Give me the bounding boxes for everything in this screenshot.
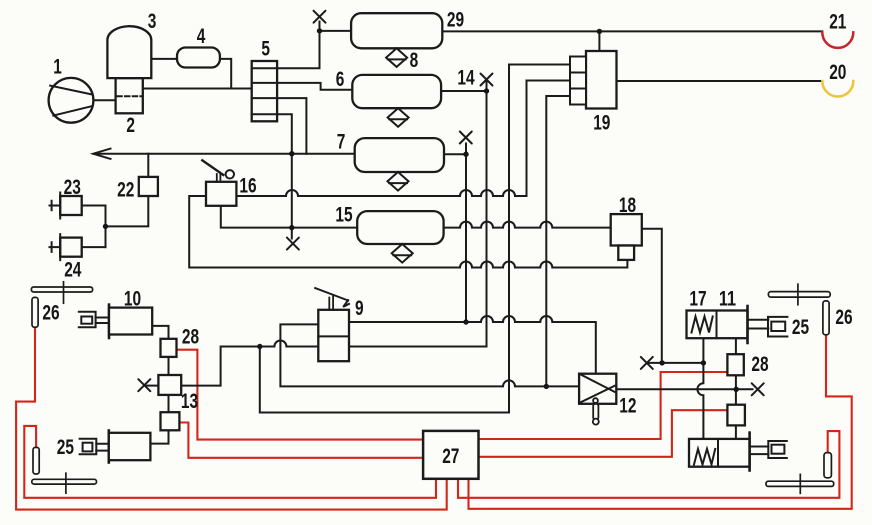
test point X at node 14 [481, 74, 493, 86]
wire: modulator 28 lower left to rear-left chamber [150, 430, 168, 443]
wire: trailer valve 19 to coupling head 20 (control line) [617, 80, 823, 82]
air reservoir 7 [355, 138, 444, 172]
svg-text:2: 2 [126, 114, 135, 137]
wire: red control lead, left modulator 28 (lower) to ECU 27 [179, 423, 423, 458]
junction node on unloading line [289, 151, 294, 156]
wire: test X stub into valve 13 [145, 385, 158, 387]
test point X below reservoir 15 node [287, 238, 299, 250]
trailer control valve 19 [570, 51, 617, 109]
wire: push rod of chamber 10 [96, 318, 109, 324]
wire: spring chamber 17 port down with hop over valve 12 line [697, 338, 703, 439]
spring brake chamber (rear right) [689, 433, 750, 471]
svg-text:12: 12 [619, 395, 636, 418]
svg-text:29: 29 [447, 9, 464, 32]
svg-text:28: 28 [751, 353, 768, 376]
valve 22 [139, 177, 158, 196]
junction node on valve 9 to valve 12 line [463, 319, 468, 324]
wire: valve 5 port I to reservoir 29 (with test point stub) [277, 31, 351, 68]
brake valve 9 (two-section, foot operated) [315, 288, 349, 361]
wire: stub test point X at node 14 [486, 81, 488, 92]
coupling head 21 (red) [822, 32, 853, 48]
junction node at reservoir 29 feed [317, 28, 322, 33]
svg-text:26: 26 [835, 306, 852, 329]
ECU 27 [423, 431, 478, 479]
wire: reservoir 7 to test node [444, 153, 466, 155]
svg-text:19: 19 [593, 111, 610, 134]
wheel 26 (front left): axle bar, mark and tyre [31, 282, 92, 327]
wheel (rear right): tyre, axle bar and mark [766, 453, 834, 494]
relay valve 18 [611, 214, 642, 260]
valve 13 [158, 375, 181, 395]
wire: red control lead, right modulator 28 (lower) to ECU 27 [479, 410, 728, 457]
wheel (rear left): tyre, axle bar and mark [32, 447, 97, 493]
wire: red sensor lead, rear-left wheel to ECU 27 (inner loop) [24, 426, 436, 498]
ABS modulator 28 (upper right) [727, 354, 743, 375]
svg-text:15: 15 [335, 203, 352, 226]
wire: push rod of front-right spring chamber [748, 320, 769, 329]
wire: switch 24 to junction [82, 246, 106, 248]
four-circuit protection valve 5 [252, 61, 277, 121]
svg-text:14: 14 [457, 67, 474, 90]
wire: red control lead, left modulator 28 (upper) to ECU 27 [177, 350, 424, 440]
junction node at reservoir 7 output [463, 152, 468, 157]
wire: red control lead, right modulator 28 (upper) to ECU 27 [479, 372, 728, 439]
svg-text:25: 25 [57, 436, 74, 459]
drain valve under reservoir 7 [388, 172, 409, 191]
drain valve under reservoir 15 [392, 244, 413, 263]
slack adjuster at rear right chamber [768, 441, 787, 458]
wire: stub test point X above reservoir 7 node [465, 144, 467, 155]
svg-text:21: 21 [829, 11, 846, 34]
wire: switch 23 to junction [82, 205, 106, 207]
slack adjuster at chamber 10 [79, 312, 96, 328]
wire: stub from supply line down into trailer valve 19 [598, 31, 600, 51]
wire: hand valve 12 output to rear X test point [616, 388, 752, 390]
svg-text:23: 23 [64, 176, 81, 199]
wire: valve 13 to modulator 28 (lower left) [168, 395, 170, 412]
wire: dryer 3 to regenerator 4 [151, 58, 177, 60]
wire: unloader 2 to four-circuit protection valve 5 [143, 88, 252, 90]
wire: valve 5 port III down to unloading line [277, 98, 306, 154]
air dryer 3 [107, 26, 151, 78]
slack adjuster at rear left chamber [80, 439, 97, 454]
wire: spring-brake line with test X to chamber ports [647, 362, 703, 364]
svg-text:24: 24 [64, 259, 81, 282]
drain valve 8 under reservoir 29 [386, 48, 407, 67]
drain valve under reservoir 6 [388, 108, 409, 127]
wire: modulator 28 to valve 13 [168, 357, 170, 375]
wire: junction vertical between switch 23 and switch 24 [105, 206, 107, 248]
svg-text:18: 18 [619, 194, 636, 217]
svg-text:10: 10 [124, 288, 141, 311]
wire: push rod of rear-right spring chamber [750, 447, 769, 455]
junction node 14 [484, 88, 489, 93]
compressor 1 [49, 78, 94, 123]
wire: reservoir 15 right to relay valve 18, with hops [444, 222, 611, 228]
wire: valve 19 port 3 left and down to valve 12 feed [546, 96, 570, 386]
svg-text:5: 5 [261, 38, 270, 61]
svg-text:8: 8 [410, 49, 419, 72]
junction node on valve 12 feed line [544, 384, 549, 389]
wire: valve 19 port 1 left, down and across to brake-valve node [260, 65, 570, 413]
wire: red sensor lead, rear-right wheel to ECU 27 (inner loop) [458, 431, 839, 498]
svg-text:20: 20 [829, 61, 846, 84]
svg-text:9: 9 [355, 297, 364, 320]
wire: push rod of rear-left chamber [96, 444, 109, 451]
ABS modulator 28 (lower right) [727, 405, 745, 426]
wire: valve 5 port IV down through junctions to test point [277, 114, 292, 238]
wheel 26 (front right): axle bar, mark and tyre [768, 284, 830, 335]
pressure switch 23 [50, 193, 82, 219]
air reservoir 29 [351, 13, 442, 48]
wire: hand valve 16 to valve 19 port 2 with crossing hops [236, 81, 570, 197]
coupling head 20 (yellow) [822, 81, 853, 97]
junction node at brake valve 9 lower feed [257, 344, 262, 349]
wire: reservoir 29 to coupling head 21 (trailer supply line) [442, 30, 822, 32]
wire: node 14 down to brake valve 9 lower section [349, 91, 487, 347]
wire: hand valve 16 left port to relay valve 18 control port, with hops [189, 196, 627, 268]
wire: brake valve 9 upper section to hand valve 12 top, with hops [349, 316, 596, 374]
spring brake chamber 17/11 (front right) [687, 306, 748, 343]
wire: stub to test point X above node [319, 22, 321, 31]
arrow head of unloading line [93, 149, 110, 159]
brake chamber (rear left) [109, 431, 151, 463]
svg-text:25: 25 [792, 316, 809, 339]
junction node spring-brake line to chamber 17 port [701, 360, 706, 365]
ABS modulator 28 (lower left) [161, 412, 180, 430]
pressure switch 24 [50, 234, 82, 260]
svg-text:13: 13 [181, 390, 198, 413]
junction node on reservoir 15 line [289, 225, 294, 230]
slack adjuster at chamber 11 [768, 317, 787, 337]
regeneration reservoir 4 [177, 48, 220, 68]
svg-text:22: 22 [117, 178, 134, 201]
air reservoir 15 [357, 211, 443, 244]
junction node relay 18 output on spring-brake line [659, 360, 664, 365]
unloader 2 [116, 78, 143, 113]
air reservoir 6 [352, 75, 441, 108]
hand (parking) valve 12 [579, 374, 616, 425]
svg-text:28: 28 [182, 326, 199, 349]
svg-text:16: 16 [239, 174, 256, 197]
wire: hand valve 16 bottom port to reservoir 15 [221, 206, 357, 228]
wire: valve 13 to brake valve 9 lower-left with hop [181, 341, 318, 386]
wire: modulator 28 lower right to rear chamber [735, 425, 737, 439]
wire: relay valve 18 output right and down [642, 229, 662, 363]
junction node on trailer supply line above valve 19 [597, 29, 602, 34]
wire: red sensor lead, front-left wheel to ECU 27 (outer loop) [16, 327, 447, 509]
svg-text:1: 1 [53, 56, 62, 79]
wire: unloading line with arrow to atmosphere [95, 153, 355, 155]
test point X at valve 13 [138, 379, 150, 391]
wire: stub from unloading line down to valve 22 [147, 154, 149, 177]
svg-text:3: 3 [148, 10, 157, 33]
test point X above reservoir 29 node [314, 11, 326, 23]
svg-text:27: 27 [442, 445, 459, 468]
wire: chamber 10 to modulator 28 (upper left) [152, 326, 168, 339]
wire: valve 5 port II to reservoir 6 [277, 83, 352, 90]
test point X at valve 12 output end [752, 383, 764, 395]
svg-text:6: 6 [336, 68, 345, 91]
wire: chamber 11 port to modulator 28 (upper right) [735, 338, 737, 354]
wire: modulator 28 upper right to lower right through valve 12 line [735, 375, 737, 404]
wire: red sensor lead, front-right wheel to ECU 27 (outer loop) [469, 335, 852, 509]
junction node between switches 23 and 24 [103, 224, 108, 229]
svg-text:4: 4 [197, 25, 206, 48]
brake chamber 10 [109, 305, 152, 338]
test point X above reservoir 7 node [460, 132, 472, 144]
svg-text:17: 17 [689, 288, 706, 311]
svg-text:11: 11 [719, 288, 736, 311]
wire: compressor 1 to unloader 2 [93, 99, 115, 101]
wire: reservoir 7 node down to brake valve 9 upper circuit [465, 154, 467, 322]
ABS modulator 28 (upper left) [161, 339, 177, 357]
wire: reservoir 6 to node 14 [441, 90, 486, 92]
wire: regenerator 4 down to protection valve 5 feed [220, 59, 231, 89]
svg-text:26: 26 [42, 302, 59, 325]
test point X on spring-brake line [641, 357, 653, 369]
wire: brake valve 9 upper-left port down to hand valve 12 feed, hop at 509 [280, 324, 579, 386]
junction node on valve 12 output line [734, 387, 739, 392]
hand brake valve 16 [202, 160, 236, 206]
wire: valve 22 down and left to switches 23/24 junction [106, 196, 149, 226]
svg-text:7: 7 [337, 131, 346, 154]
